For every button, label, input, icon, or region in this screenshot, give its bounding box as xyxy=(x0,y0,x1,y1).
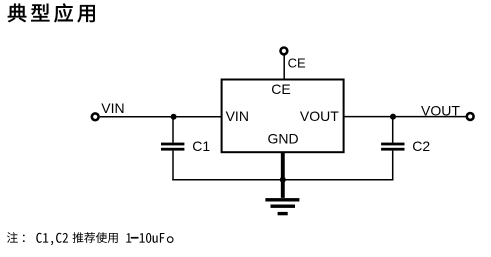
svg-text:VOUT: VOUT xyxy=(300,108,339,124)
svg-text:C2: C2 xyxy=(412,138,430,154)
terminal VIN xyxy=(92,113,99,120)
junction GND/rail xyxy=(280,177,286,183)
svg-text:VOUT: VOUT xyxy=(421,102,460,118)
note text 注： xyxy=(7,232,25,243)
wire VOUT to U1 xyxy=(344,116,467,118)
wire CE to U1 xyxy=(283,56,285,80)
capacitor C1 xyxy=(161,143,184,151)
wire junction to C1 xyxy=(172,117,174,143)
junction VIN/C1 xyxy=(171,114,177,120)
title 典型应用 xyxy=(8,4,95,23)
IC U1 body xyxy=(222,80,344,153)
terminal CE xyxy=(281,48,288,55)
terminal VOUT xyxy=(467,113,474,120)
note dash xyxy=(131,237,139,239)
note text 1 xyxy=(126,233,131,242)
note text 推荐使用 xyxy=(73,232,118,243)
svg-text:C1: C1 xyxy=(192,138,210,154)
wire junction to C2 xyxy=(392,117,394,143)
svg-text:CE: CE xyxy=(271,81,290,97)
svg-text:GND: GND xyxy=(267,131,298,147)
wire C1 to bottom rail xyxy=(172,151,174,181)
note text C1,C2 xyxy=(36,233,68,245)
wire GND pin xyxy=(281,152,285,198)
svg-text:VIN: VIN xyxy=(226,108,249,124)
svg-text:CE: CE xyxy=(288,55,306,70)
svg-text:VIN: VIN xyxy=(101,100,124,116)
junction VOUT/C2 xyxy=(390,114,396,120)
capacitor C2 xyxy=(381,143,404,151)
bottom rail wire xyxy=(172,179,393,181)
note text 10uF xyxy=(140,233,165,243)
wire C2 to bottom rail xyxy=(392,151,394,181)
note text 。 xyxy=(167,237,173,243)
wire VIN to U1 xyxy=(100,116,222,118)
ground symbol xyxy=(265,198,299,215)
